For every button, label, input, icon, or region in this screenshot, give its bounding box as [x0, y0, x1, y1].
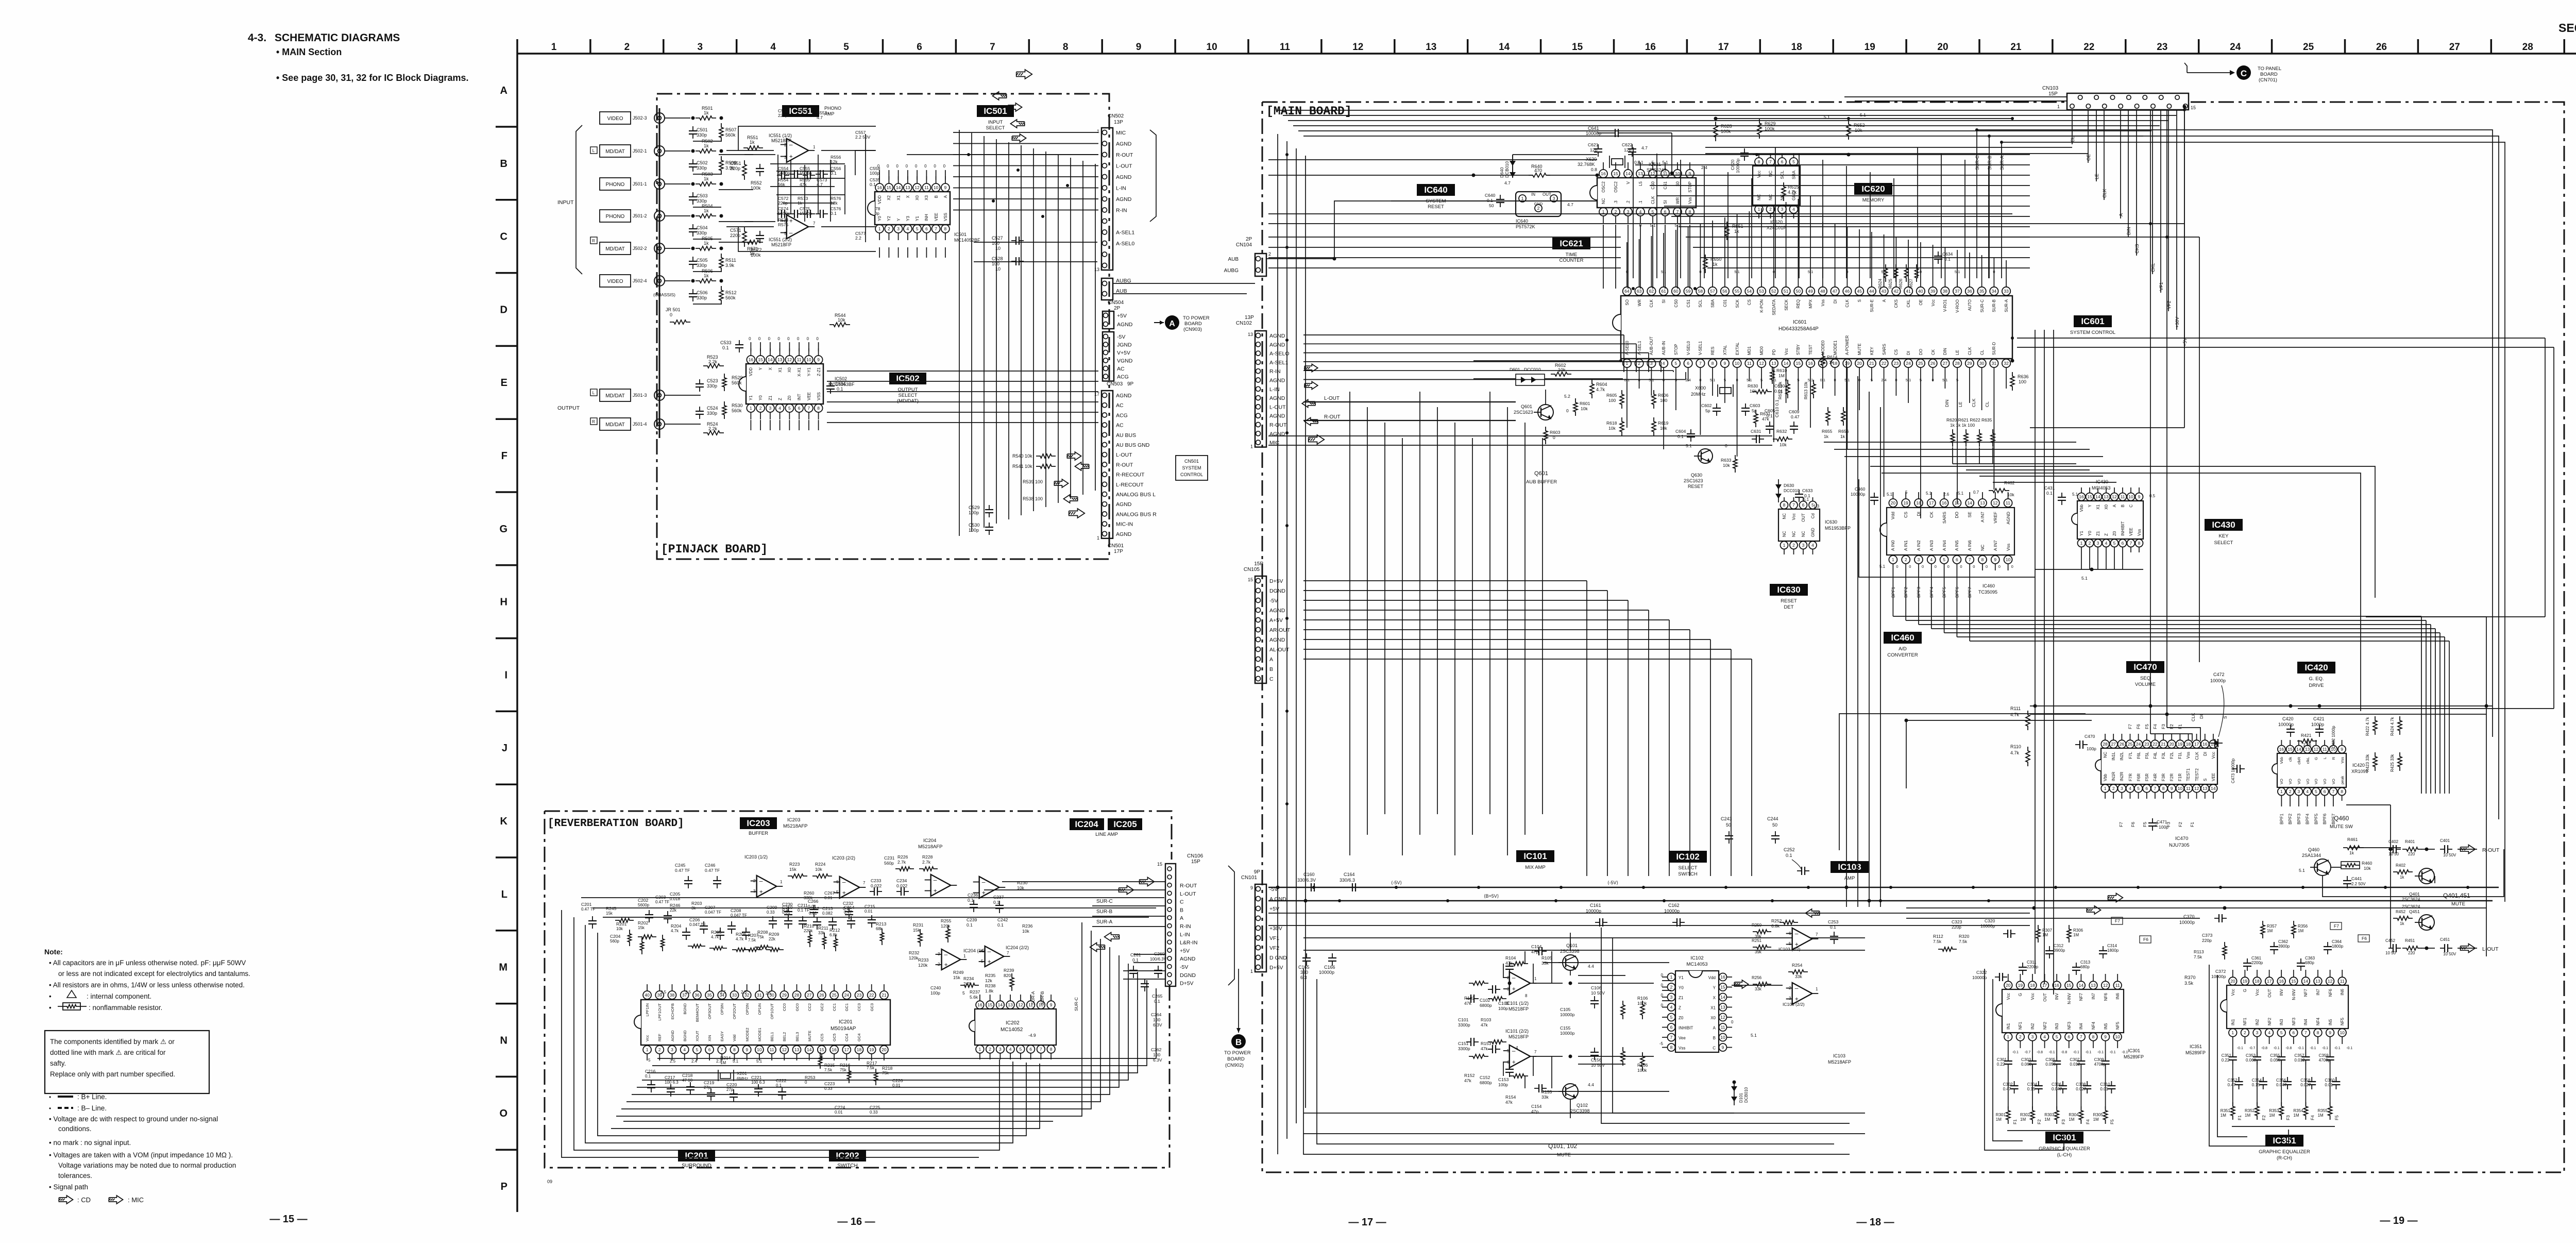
svg-text:12: 12: [787, 357, 792, 362]
svg-text:: B+ Line.: : B+ Line.: [77, 1093, 107, 1101]
svg-text:2: 2: [1905, 557, 1907, 562]
svg-text:(CN903): (CN903): [1183, 327, 1202, 332]
svg-text:C372: C372: [2215, 969, 2226, 974]
svg-text:12: 12: [1018, 1002, 1023, 1007]
svg-text:C01: C01: [1723, 299, 1727, 307]
svg-text:3: 3: [2298, 789, 2300, 794]
svg-text:0: 0: [1661, 993, 1664, 998]
svg-text:10000p: 10000p: [1980, 923, 1995, 929]
arrows near IC351: [2108, 894, 2123, 902]
svg-text:SE: SE: [1967, 512, 1972, 518]
svg-text:8: 8: [1050, 1047, 1053, 1052]
svg-text:0.1: 0.1: [1487, 198, 1493, 203]
svg-text:10 50: 10 50: [2388, 852, 2399, 856]
svg-text:CLK: CLK: [1649, 299, 1654, 307]
svg-text:R110: R110: [2010, 744, 2021, 749]
svg-text:IN7: IN7: [2091, 992, 2096, 999]
svg-text:17: 17: [1718, 42, 1729, 53]
svg-text:13: 13: [2091, 983, 2096, 988]
svg-text:D: D: [500, 304, 507, 315]
svg-text:BUFFER: BUFFER: [749, 831, 768, 836]
svg-text:VO: VO: [2306, 779, 2310, 784]
svg-text:•: •: [49, 1004, 52, 1012]
svg-text:9: 9: [2171, 786, 2173, 791]
svg-text:IC551 (2/2): IC551 (2/2): [769, 237, 792, 242]
svg-text:33k: 33k: [1541, 961, 1549, 966]
IC630 label box: [1770, 584, 1808, 596]
svg-text:C502: C502: [697, 160, 708, 165]
svg-text:C530: C530: [969, 523, 980, 528]
svg-text:5.1: 5.1: [1926, 491, 1932, 496]
svg-text:11: 11: [2121, 494, 2125, 499]
svg-text:F2L: F2L: [2170, 751, 2174, 759]
svg-text:CN101: CN101: [1241, 875, 1258, 881]
svg-text:TEST1: TEST1: [2186, 768, 2191, 781]
svg-text:Y: Y: [1713, 986, 1716, 990]
svg-text:+: +: [934, 887, 937, 895]
svg-text:-0.1: -0.1: [2237, 1047, 2243, 1050]
svg-text:VIDEO: VIDEO: [607, 116, 623, 122]
svg-text:1k: 1k: [704, 241, 709, 246]
resistors R422 R424 R423 R425: [2373, 716, 2377, 735]
svg-text:19: 19: [1865, 42, 1875, 53]
svg-text:15k: 15k: [953, 975, 960, 980]
svg-text:10: 10: [1207, 42, 1217, 53]
svg-text:PHONO: PHONO: [606, 214, 625, 220]
svg-text:7: 7: [808, 406, 810, 411]
reverb upper resistors symbols: [788, 874, 807, 878]
svg-text:⟨-5V⟩: ⟨-5V⟩: [1391, 880, 1402, 885]
svg-text:10: 10: [757, 1047, 762, 1052]
svg-text:A-SEL1: A-SEL1: [1637, 341, 1642, 355]
svg-text:4700p: 4700p: [2319, 1058, 2331, 1063]
svg-text:STOP: STOP: [1688, 181, 1692, 193]
svg-text:16: 16: [2079, 494, 2084, 499]
svg-text:9: 9: [1722, 1045, 1724, 1050]
svg-text:.2: .2: [1626, 200, 1631, 204]
svg-text:ACG: ACG: [1117, 374, 1129, 380]
svg-text:OUT: OUT: [2043, 993, 2047, 1002]
svg-text:M5218FP: M5218FP: [1509, 1006, 1529, 1012]
svg-text:R204: R204: [671, 923, 682, 929]
svg-text:100: 100: [1660, 398, 1667, 403]
svg-text:5.1: 5.1: [1887, 492, 1893, 497]
svg-text:R245: R245: [606, 906, 617, 911]
svg-text:6.8k: 6.8k: [1771, 923, 1780, 929]
svg-text:2.2 50V: 2.2 50V: [855, 134, 871, 140]
IC601 top pin fan wires: [1626, 242, 1628, 278]
svg-text:560k: 560k: [725, 295, 736, 300]
svg-text:47: 47: [1833, 289, 1838, 294]
svg-text:5.1: 5.1: [2081, 576, 2088, 581]
svg-text:R628: R628: [1721, 124, 1732, 129]
svg-text:SUR-D: SUR-D: [1992, 342, 1996, 355]
svg-text:0.1: 0.1: [967, 922, 973, 928]
svg-text:7: 7: [1769, 159, 1772, 164]
svg-text:INHIBIT: INHIBIT: [2121, 521, 2125, 536]
svg-text:100: 100: [1153, 1052, 1160, 1057]
svg-text:C602: C602: [1701, 403, 1712, 408]
svg-text:C571: C571: [730, 228, 741, 233]
svg-text:Q630: Q630: [1691, 473, 1702, 478]
svg-text:F4: F4: [2310, 1115, 2315, 1120]
svg-text:3: 3: [1789, 996, 1791, 1001]
svg-text:13: 13: [1638, 171, 1643, 176]
svg-text:IC420: IC420: [2304, 663, 2328, 672]
svg-text:0.1: 0.1: [870, 182, 876, 187]
svg-text:2: 2: [658, 1047, 661, 1052]
svg-text:10000p: 10000p: [1586, 908, 1601, 914]
svg-text:13: 13: [1008, 1002, 1013, 1007]
op-amp IC203 2/2: [840, 877, 860, 898]
svg-text:C217: C217: [665, 1075, 675, 1080]
capacitor C441: [2347, 876, 2348, 881]
svg-text:L: L: [592, 148, 595, 153]
svg-text:R231: R231: [913, 922, 924, 928]
svg-text:R511: R511: [725, 258, 736, 263]
svg-text:24: 24: [1906, 361, 1911, 366]
svg-text:tolerances.: tolerances.: [58, 1172, 92, 1180]
svg-text:R606: R606: [1658, 393, 1669, 398]
svg-text:3: 3: [784, 155, 787, 160]
svg-text:0: 0: [877, 164, 880, 169]
svg-text:VEE: VEE: [2211, 773, 2216, 781]
svg-text:R154: R154: [1505, 1095, 1516, 1100]
svg-text:–: –: [1795, 930, 1799, 937]
svg-text:MIX AMP: MIX AMP: [1525, 865, 1546, 870]
svg-text:CLK: CLK: [1845, 299, 1850, 307]
IC201 chip M50194AP: [641, 1000, 890, 1045]
svg-text:100k: 100k: [1721, 129, 1731, 134]
svg-text:The components identified by m: The components identified by mark ⚠ or: [50, 1038, 175, 1046]
svg-text:1M: 1M: [2020, 1117, 2026, 1122]
svg-text:14: 14: [1625, 171, 1631, 176]
svg-text:AGND: AGND: [1116, 531, 1132, 537]
svg-text:J501-3: J501-3: [633, 393, 647, 398]
svg-text:R618: R618: [1606, 420, 1617, 426]
svg-text:C246: C246: [705, 863, 716, 868]
resistor R460 nonflammable: [2341, 862, 2360, 869]
svg-text:15: 15: [2087, 494, 2092, 499]
svg-text:NF5: NF5: [2340, 1017, 2345, 1025]
svg-text:330p: 330p: [697, 263, 707, 268]
svg-text:ECHOFB: ECHOFB: [670, 1003, 675, 1019]
svg-text:7: 7: [1676, 209, 1679, 214]
svg-text:M5218FP: M5218FP: [1509, 1034, 1529, 1039]
capacitor in IC551 network: [777, 175, 782, 176]
svg-text:M: M: [499, 962, 507, 973]
svg-text:C421: C421: [2313, 716, 2325, 721]
svg-text:M5289FP: M5289FP: [2185, 1050, 2206, 1055]
svg-text:15: 15: [819, 1047, 824, 1052]
svg-text:C206: C206: [689, 917, 700, 922]
resistor R571: [743, 240, 763, 244]
svg-text:10000p: 10000p: [1586, 131, 1601, 136]
CN104 connector 2P: [1255, 254, 1266, 276]
svg-text:1: 1: [1521, 196, 1524, 201]
svg-text:R226: R226: [897, 854, 908, 860]
svg-text:4.7k: 4.7k: [2010, 750, 2020, 755]
svg-text:20: 20: [2230, 979, 2235, 984]
svg-text:R636: R636: [2018, 374, 2029, 379]
svg-text:330p: 330p: [707, 383, 717, 389]
svg-text:IC630: IC630: [1777, 585, 1800, 595]
input group bracket: [576, 125, 582, 274]
svg-text:560p: 560p: [884, 861, 894, 866]
svg-text:R624: R624: [1878, 278, 1883, 289]
IC301 label box: [2045, 1132, 2083, 1143]
svg-text:Vcc: Vcc: [645, 1035, 650, 1041]
svg-text:XIN: XIN: [707, 1035, 712, 1041]
svg-text:10k: 10k: [815, 867, 822, 872]
diodes D101: [1734, 1082, 1735, 1105]
svg-text:IC101 (1/2): IC101 (1/2): [1505, 1001, 1529, 1006]
crystal X600: [1720, 388, 1731, 394]
svg-text:6: 6: [2324, 789, 2326, 794]
svg-text:R208: R208: [757, 930, 768, 935]
svg-text:C162: C162: [1668, 903, 1680, 908]
svg-text:0: 0: [1553, 435, 1555, 440]
svg-text:0.1: 0.1: [1154, 999, 1160, 1004]
svg-text:AGND: AGND: [1116, 174, 1132, 180]
svg-text:Y-Y1: Y-Y1: [807, 367, 811, 376]
svg-text:0: 0: [1960, 564, 1962, 569]
svg-text:14: 14: [2211, 786, 2216, 791]
svg-text:10: 10: [995, 266, 1001, 272]
svg-text:0.7: 0.7: [1973, 490, 1979, 495]
svg-text:Y: Y: [896, 218, 901, 221]
svg-text:G: G: [2314, 757, 2318, 760]
svg-text:10: 10: [806, 357, 811, 362]
svg-text:MODE1: MODE1: [757, 1028, 762, 1041]
svg-text:C353: C353: [2246, 1053, 2256, 1058]
svg-text:C630: C630: [1774, 383, 1785, 389]
resistors R628 R629: [1714, 122, 1718, 141]
svg-text:13: 13: [1426, 42, 1436, 53]
svg-text:AUB-IN: AUB-IN: [1662, 341, 1666, 355]
svg-text:A IN0: A IN0: [1890, 540, 1895, 551]
svg-text:21: 21: [2010, 42, 2022, 53]
svg-text:M5218FP: M5218FP: [771, 242, 791, 247]
svg-text:NF6: NF6: [2328, 988, 2333, 997]
svg-text:14: 14: [1967, 500, 1972, 506]
svg-text:CKS: CKS: [2134, 244, 2140, 254]
svg-text:IC620: IC620: [1770, 220, 1783, 225]
svg-text:ANALOG BUS L: ANALOG BUS L: [1116, 492, 1156, 498]
svg-text:F6: F6: [2136, 724, 2141, 729]
graphic equalizer top wires: [1906, 907, 2486, 908]
svg-text:R351: R351: [2221, 1108, 2231, 1113]
svg-text:26: 26: [2376, 42, 2387, 53]
svg-text:IN2: IN2: [2255, 1019, 2260, 1025]
IC102 label box: [1669, 851, 1707, 863]
svg-text:BGND: BGND: [683, 1003, 687, 1014]
svg-text:BEL1: BEL1: [770, 1032, 774, 1041]
svg-text:IC102: IC102: [1690, 955, 1703, 961]
svg-text:22: 22: [869, 992, 874, 998]
wires IC640: [1473, 175, 1533, 176]
svg-text:D+5V: D+5V: [1180, 981, 1194, 987]
svg-text:TIME: TIME: [1566, 252, 1578, 258]
svg-text:C239: C239: [967, 917, 977, 922]
svg-text:R303: R303: [2044, 1113, 2055, 1117]
svg-text:R238: R238: [985, 983, 996, 988]
svg-text:-0.1: -0.1: [2110, 1051, 2116, 1054]
svg-text:Z-Z1: Z-Z1: [817, 367, 821, 376]
svg-text:C220: C220: [726, 1082, 737, 1087]
svg-text:120k: 120k: [941, 923, 951, 929]
IC460 label box: [1884, 632, 1922, 644]
svg-text:1M: 1M: [2042, 933, 2048, 937]
svg-text:23: 23: [2144, 742, 2149, 747]
svg-text:Z0: Z0: [1679, 1016, 1684, 1020]
svg-text:MD0: MD0: [1759, 346, 1764, 355]
svg-text:48: 48: [1820, 289, 1825, 294]
svg-text:100p: 100p: [930, 990, 940, 996]
svg-text:8: 8: [2138, 541, 2141, 546]
svg-text:A: A: [1169, 319, 1175, 328]
svg-text:MUTE: MUTE: [1857, 343, 1862, 355]
svg-text:0: 0: [896, 164, 899, 169]
svg-text:L-OUT: L-OUT: [1116, 452, 1132, 458]
IC601 top fan verticals: [1633, 147, 1634, 278]
svg-text:3900p: 3900p: [2278, 944, 2290, 949]
svg-text:38: 38: [1943, 289, 1948, 294]
svg-text:EXTAL: EXTAL: [1735, 342, 1740, 355]
reverb right wire bundle: [616, 922, 1082, 1116]
svg-text:C640: C640: [1485, 193, 1496, 198]
capacitor C633: [1799, 490, 1800, 494]
svg-text:IC201: IC201: [839, 1019, 853, 1025]
svg-text:A IN4: A IN4: [1942, 540, 1947, 551]
svg-text:2: 2: [624, 42, 630, 53]
A power marker: [1165, 315, 1179, 330]
svg-text:41: 41: [1906, 289, 1911, 294]
svg-text:0.22: 0.22: [2222, 1058, 2230, 1063]
PINJACK board outline: [657, 94, 1109, 559]
svg-text:F: F: [501, 450, 507, 462]
input jack J501-1 (PHONO): [600, 178, 631, 190]
svg-text:Q401,451: Q401,451: [2443, 892, 2470, 899]
svg-text:39k: 39k: [1755, 950, 1762, 954]
svg-text:25: 25: [1918, 361, 1923, 366]
R tag output: [590, 418, 597, 425]
svg-text:C231: C231: [884, 855, 895, 861]
svg-text:X600: X600: [1695, 385, 1706, 391]
mid vertical bus lines: [1846, 361, 1847, 907]
svg-text:X2: X2: [887, 195, 891, 200]
resistor R603: [1544, 427, 1548, 444]
svg-text:8: 8: [1981, 557, 1984, 562]
svg-text:19: 19: [2018, 983, 2023, 988]
svg-text:2SC3398: 2SC3398: [1560, 949, 1580, 954]
svg-text:dotted line with mark ⚠ are: dotted line with mark ⚠ are critical for: [50, 1049, 166, 1056]
svg-text:14: 14: [998, 1002, 1003, 1007]
svg-text:DI: DI: [2203, 752, 2208, 756]
svg-text:CN104: CN104: [1236, 242, 1252, 248]
svg-text:R223: R223: [789, 862, 800, 867]
svg-text:R401: R401: [2405, 839, 2415, 844]
svg-text:Vss: Vss: [2137, 529, 2142, 536]
svg-text:330p: 330p: [707, 411, 717, 416]
svg-text:NF1: NF1: [2018, 1021, 2023, 1030]
capacitor C104 C154 loops: [1534, 951, 1539, 952]
svg-text:R224: R224: [815, 862, 826, 867]
svg-text:42: 42: [1894, 289, 1899, 294]
svg-text:F5L: F5L: [2145, 751, 2149, 759]
svg-text:R613 10k: R613 10k: [1804, 381, 1808, 399]
svg-text:R232: R232: [909, 950, 920, 955]
svg-text:12: 12: [1759, 361, 1764, 366]
svg-text:12k: 12k: [985, 978, 992, 983]
svg-text:12p: 12p: [1590, 147, 1597, 153]
svg-text:24: 24: [2136, 742, 2141, 747]
svg-text:PD: PD: [1772, 349, 1776, 355]
svg-text:F2: F2: [2178, 822, 2183, 827]
svg-text:KEY: KEY: [2218, 533, 2229, 539]
resistor R106 R156 verticals: [1640, 1001, 1645, 1019]
resistor R506 and capacitor C506 at jack J502-4: [696, 279, 716, 283]
svg-text:AGND: AGND: [1116, 393, 1132, 399]
svg-text:V-RO1: V-RO1: [1943, 299, 1947, 312]
svg-text:23: 23: [857, 992, 862, 998]
svg-text:22k: 22k: [769, 937, 776, 941]
pinjack horizontal wires to CN502: [953, 132, 1098, 133]
svg-text:39: 39: [1930, 289, 1936, 294]
svg-text:IN2: IN2: [2030, 1023, 2035, 1030]
svg-text:-5V: -5V: [1180, 964, 1188, 970]
svg-text:DGND: DGND: [1180, 972, 1196, 979]
svg-text:C209: C209: [767, 905, 777, 910]
svg-text:50: 50: [1726, 822, 1731, 828]
svg-text:3: 3: [2121, 786, 2123, 791]
svg-text:24: 24: [2230, 42, 2241, 53]
svg-text:14: 14: [2303, 979, 2309, 984]
op-amp IC206 2/2: [979, 877, 999, 898]
svg-text:IC205: IC205: [1113, 819, 1137, 829]
svg-text:9P: 9P: [1127, 381, 1134, 387]
svg-text:12: 12: [2328, 979, 2333, 984]
svg-text:19: 19: [2178, 742, 2183, 747]
svg-text:3: 3: [897, 226, 900, 231]
svg-text:IC460: IC460: [1891, 633, 1914, 643]
svg-text:13: 13: [1771, 361, 1776, 366]
svg-text:12: 12: [782, 1047, 787, 1052]
svg-text:G: G: [2018, 993, 2023, 996]
svg-text:4.7k: 4.7k: [671, 929, 679, 933]
svg-text:IC204: IC204: [1075, 819, 1098, 829]
svg-text:7.5k: 7.5k: [824, 1068, 833, 1072]
svg-text:CK: CK: [1929, 512, 1934, 518]
svg-text:CN502: CN502: [1108, 113, 1124, 119]
svg-text:R217: R217: [867, 1060, 877, 1066]
input jack J501-2 (PHONO): [600, 210, 631, 222]
svg-text:6: 6: [1029, 1047, 1032, 1052]
svg-text:1: 1: [2080, 541, 2083, 546]
svg-text:3: 3: [1918, 557, 1920, 562]
svg-text:R460: R460: [2362, 861, 2372, 866]
svg-text:SUR-A: SUR-A: [1030, 991, 1036, 1005]
svg-text:6: 6: [2145, 786, 2148, 791]
svg-text:OE: OE: [1919, 299, 1923, 306]
svg-text:LINE AMP: LINE AMP: [1095, 832, 1118, 837]
svg-text:0: 0: [1661, 983, 1664, 988]
svg-text:C621: C621: [1588, 142, 1599, 147]
svg-text:1: 1: [1250, 969, 1253, 974]
svg-text:1M: 1M: [2267, 929, 2273, 933]
svg-text:R530: R530: [732, 403, 743, 408]
svg-text:Vcc: Vcc: [2231, 989, 2235, 996]
